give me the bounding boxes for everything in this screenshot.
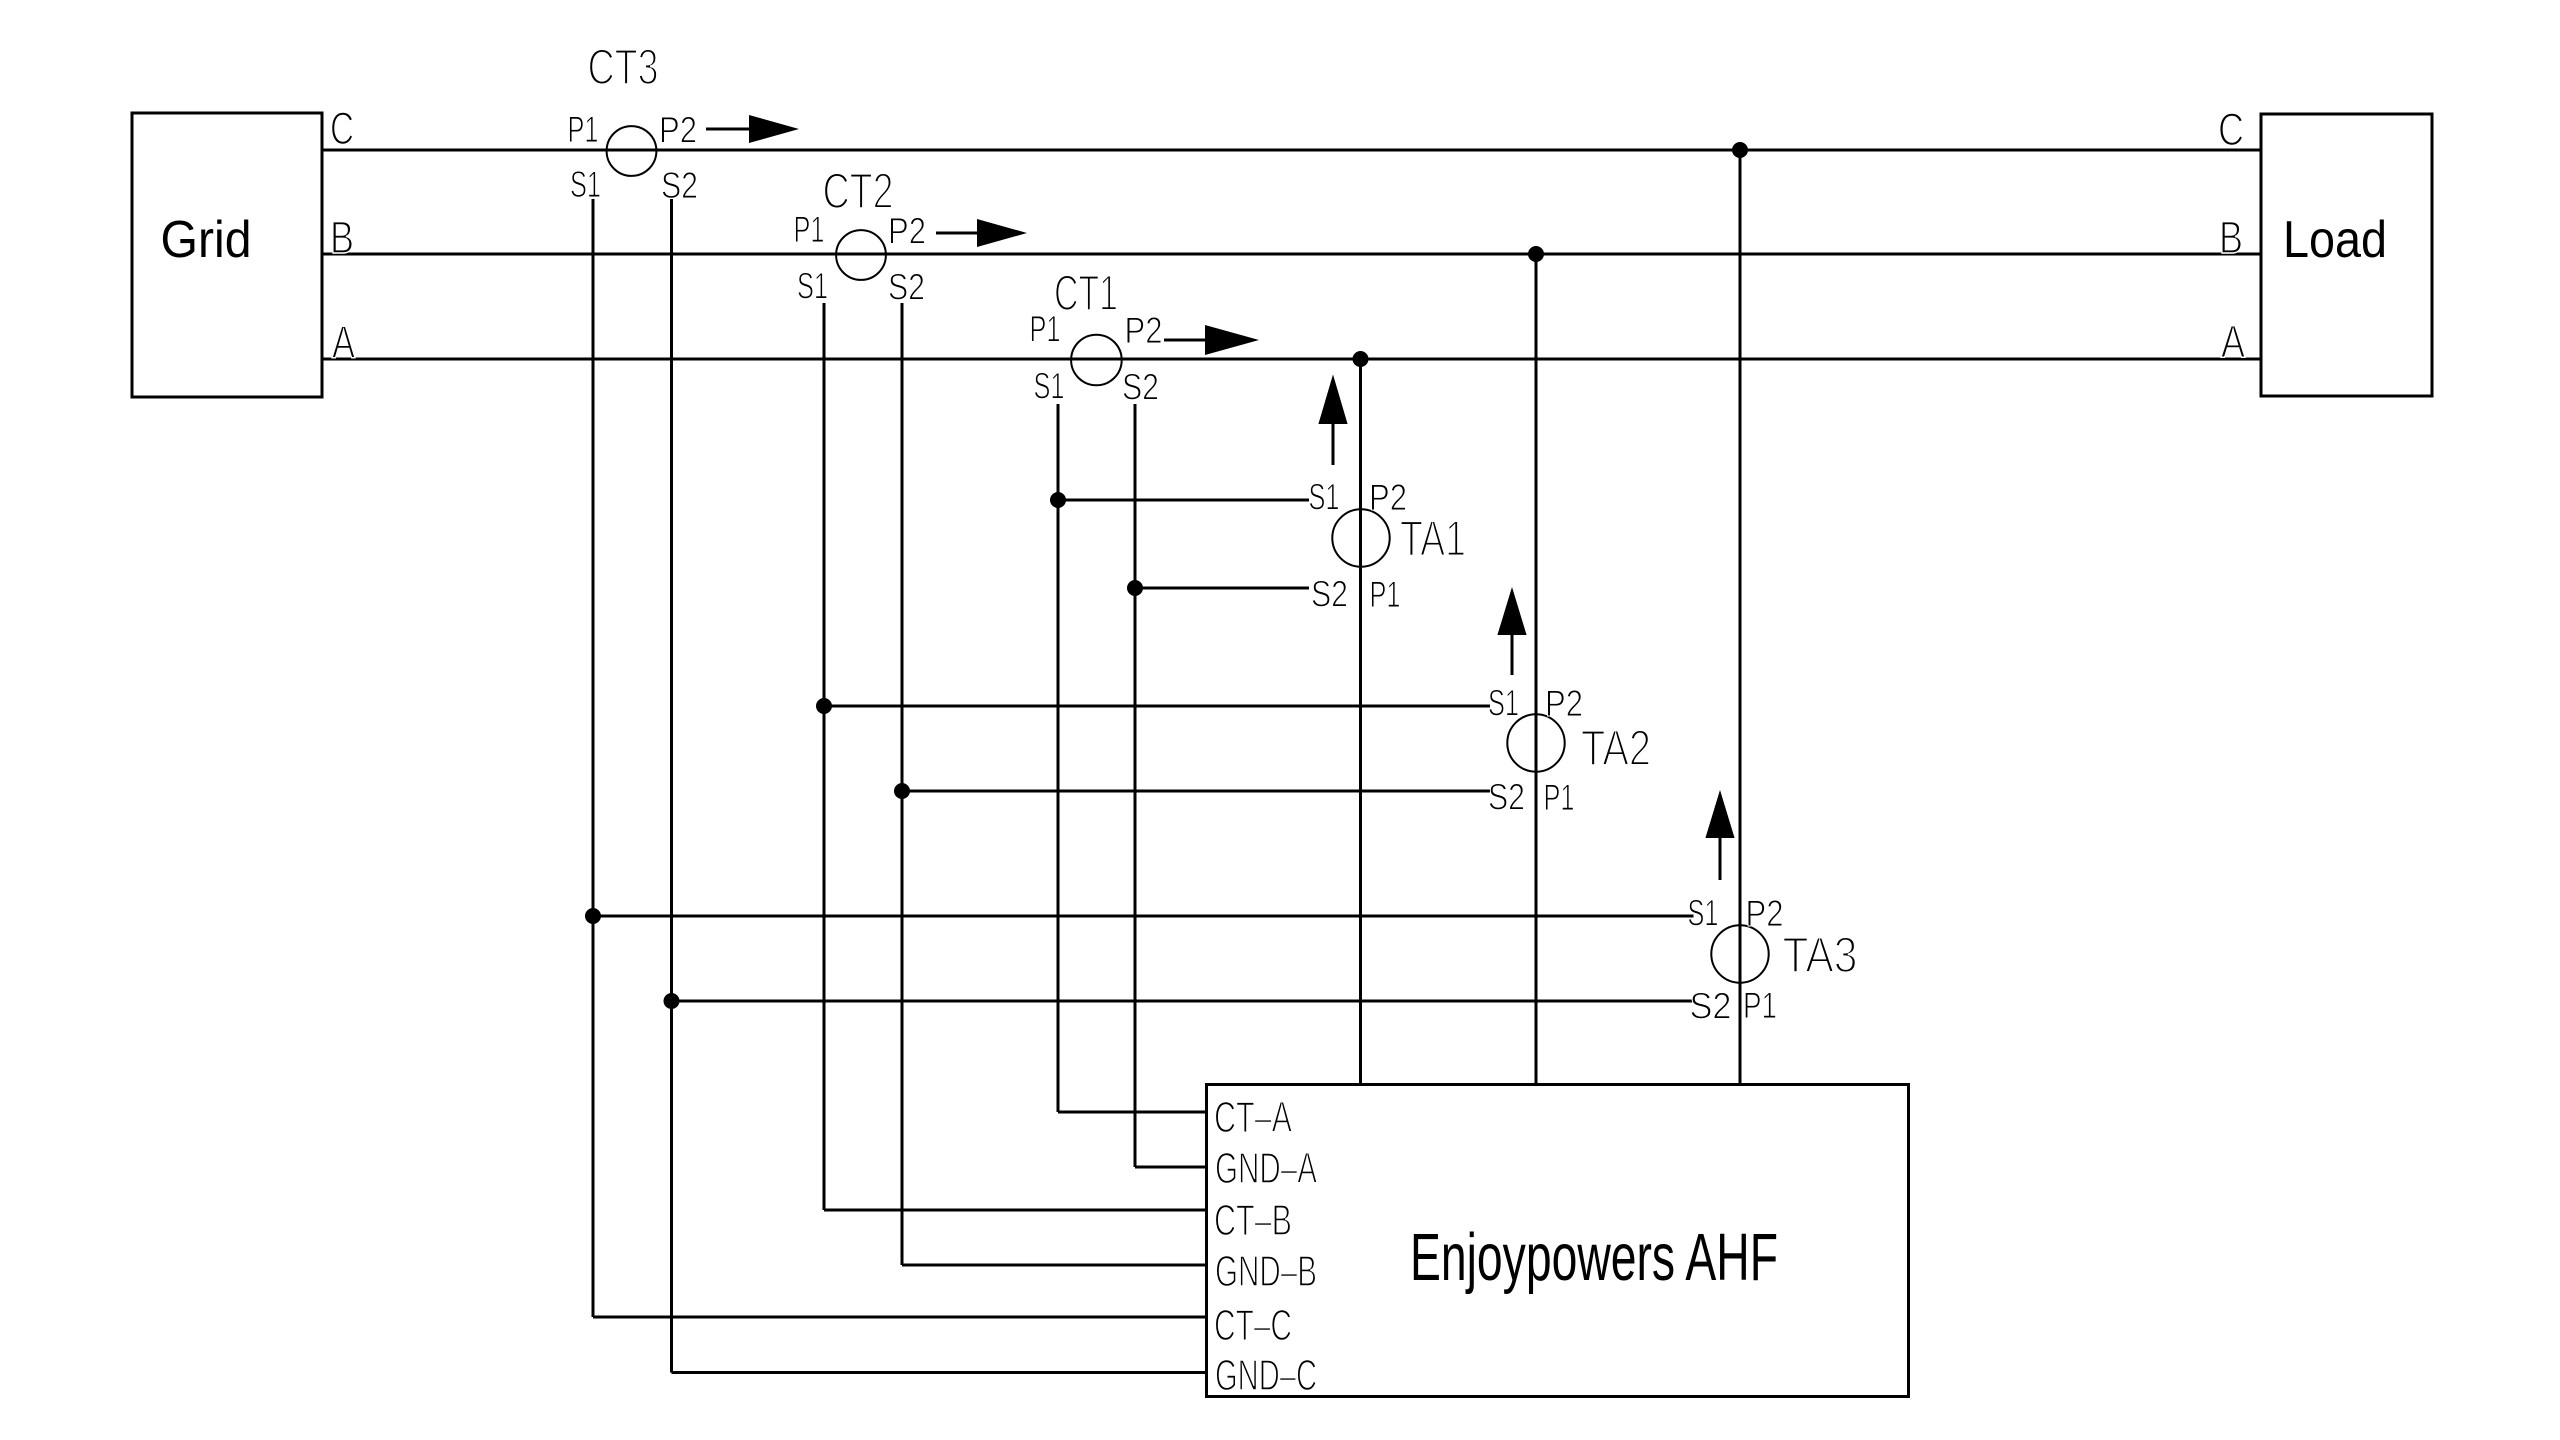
svg-text:TA2: TA2 [1581,720,1651,776]
node junction CT1 S2 [1127,580,1143,596]
svg-text:P1: P1 [1370,574,1401,615]
current transformer CT3 (phase C) [607,126,657,176]
arrow compensation current TA3 [1705,790,1734,838]
svg-text:P1: P1 [568,109,599,150]
wire CT1 S1 down to CT-A [1057,404,1060,1112]
wire TA3 vertical (phase C to AHF) [1739,150,1742,1085]
node junction phase B / TA2 [1528,246,1544,262]
wire GND-C terminal [672,1371,1207,1374]
source box Grid [132,113,322,397]
svg-text:P1: P1 [794,209,825,250]
svg-text:S1: S1 [797,266,828,307]
wire CT1 S2 down to GND-A [1134,404,1137,1167]
wire CT-A terminal [1058,1111,1207,1114]
svg-text:C: C [2218,104,2244,155]
svg-text:P1: P1 [1030,309,1061,350]
svg-text:CT1: CT1 [1054,265,1118,321]
svg-text:S2: S2 [1690,986,1732,1027]
svg-text:S1: S1 [1488,683,1519,724]
wire CT3 S2 down to GND-C [670,199,673,1373]
wire phase A (Grid to Load) [322,358,2261,361]
svg-text:TA1: TA1 [1400,511,1466,567]
arrow current direction phase C [706,128,749,131]
wire CT2 S2 to TA2 S2 [902,790,1490,793]
transformer TA1 [1332,509,1389,566]
node junction CT2 S2 [894,783,910,799]
svg-text:S1: S1 [1309,477,1340,518]
wire CT3 S1 down to CT-C [592,199,595,1317]
arrow current direction phase B [936,232,977,235]
svg-text:P1: P1 [1544,777,1575,818]
wire CT-C terminal [593,1316,1207,1319]
wire CT3 S2 to TA3 S2 [672,1000,1694,1003]
svg-text:CT3: CT3 [588,39,659,95]
svg-text:B: B [330,212,354,263]
svg-text:CT2: CT2 [823,163,894,219]
svg-text:S1: S1 [1034,366,1065,407]
wire CT3 S1 to TA3 S1 [593,915,1694,918]
arrow compensation current TA1 [1318,375,1347,425]
svg-text:CT–A: CT–A [1214,1093,1292,1142]
svg-text:Enjoypowers AHF: Enjoypowers AHF [1410,1220,1778,1295]
transformer TA3 [1711,925,1768,982]
svg-text:B: B [2219,212,2243,263]
svg-text:C: C [330,103,354,154]
svg-text:P2: P2 [659,110,697,151]
current transformer CT2 (phase B) [836,230,886,280]
node junction phase A / TA1 [1353,351,1369,367]
wire phase C (Grid to Load) [322,149,2261,152]
svg-text:CT–C: CT–C [1214,1301,1292,1350]
wire TA2 vertical (phase B to AHF) [1535,254,1538,1085]
svg-text:S2: S2 [661,165,698,206]
node junction CT3 S1 [585,908,601,924]
svg-text:GND–A: GND–A [1215,1144,1317,1193]
svg-text:TA3: TA3 [1783,927,1858,983]
svg-text:A: A [2221,316,2245,367]
wire CT1 S2 to TA1 S2 [1135,587,1309,590]
AHF unit box U1 [1207,1085,1909,1397]
svg-text:A: A [332,317,355,368]
wire phase B (Grid to Load) [322,253,2261,256]
svg-text:P1: P1 [1743,985,1777,1026]
svg-text:S2: S2 [888,267,925,308]
node junction phase C / TA3 [1732,142,1748,158]
node junction CT3 S2 [664,993,680,1009]
svg-text:S2: S2 [1311,574,1348,615]
wire CT2 S1 down to CT-B [823,303,826,1210]
svg-text:P2: P2 [1746,893,1784,934]
svg-text:S1: S1 [570,164,601,205]
transformer TA2 [1507,714,1564,771]
wire CT2 S2 down to GND-B [901,303,904,1265]
svg-text:CT–B: CT–B [1214,1196,1292,1245]
svg-text:Grid: Grid [161,211,252,269]
svg-text:GND–C: GND–C [1215,1351,1317,1400]
wire CT-B terminal [824,1209,1207,1212]
svg-text:S2: S2 [1488,777,1525,818]
node junction CT1 S1 [1050,492,1066,508]
svg-text:Load: Load [2283,211,2387,269]
wire GND-A terminal [1135,1166,1207,1169]
arrow compensation current TA2 [1497,587,1526,635]
arrow current direction phase A [1164,339,1205,342]
svg-text:S2: S2 [1122,367,1159,408]
svg-text:P2: P2 [888,211,926,252]
svg-text:P2: P2 [1545,683,1583,724]
wire CT1 S1 to TA1 S1 [1058,499,1309,502]
wire TA1 vertical (phase A to AHF) [1359,359,1362,1085]
svg-text:S1: S1 [1688,893,1719,934]
load box Load [2261,114,2432,396]
svg-text:P2: P2 [1369,477,1407,518]
svg-text:GND–B: GND–B [1215,1247,1317,1296]
wire CT2 S1 to TA2 S1 [824,705,1490,708]
wire GND-B terminal [902,1264,1207,1267]
svg-text:P2: P2 [1125,310,1163,351]
current transformer CT1 (phase A) [1071,335,1122,386]
node junction CT2 S1 [816,698,832,714]
